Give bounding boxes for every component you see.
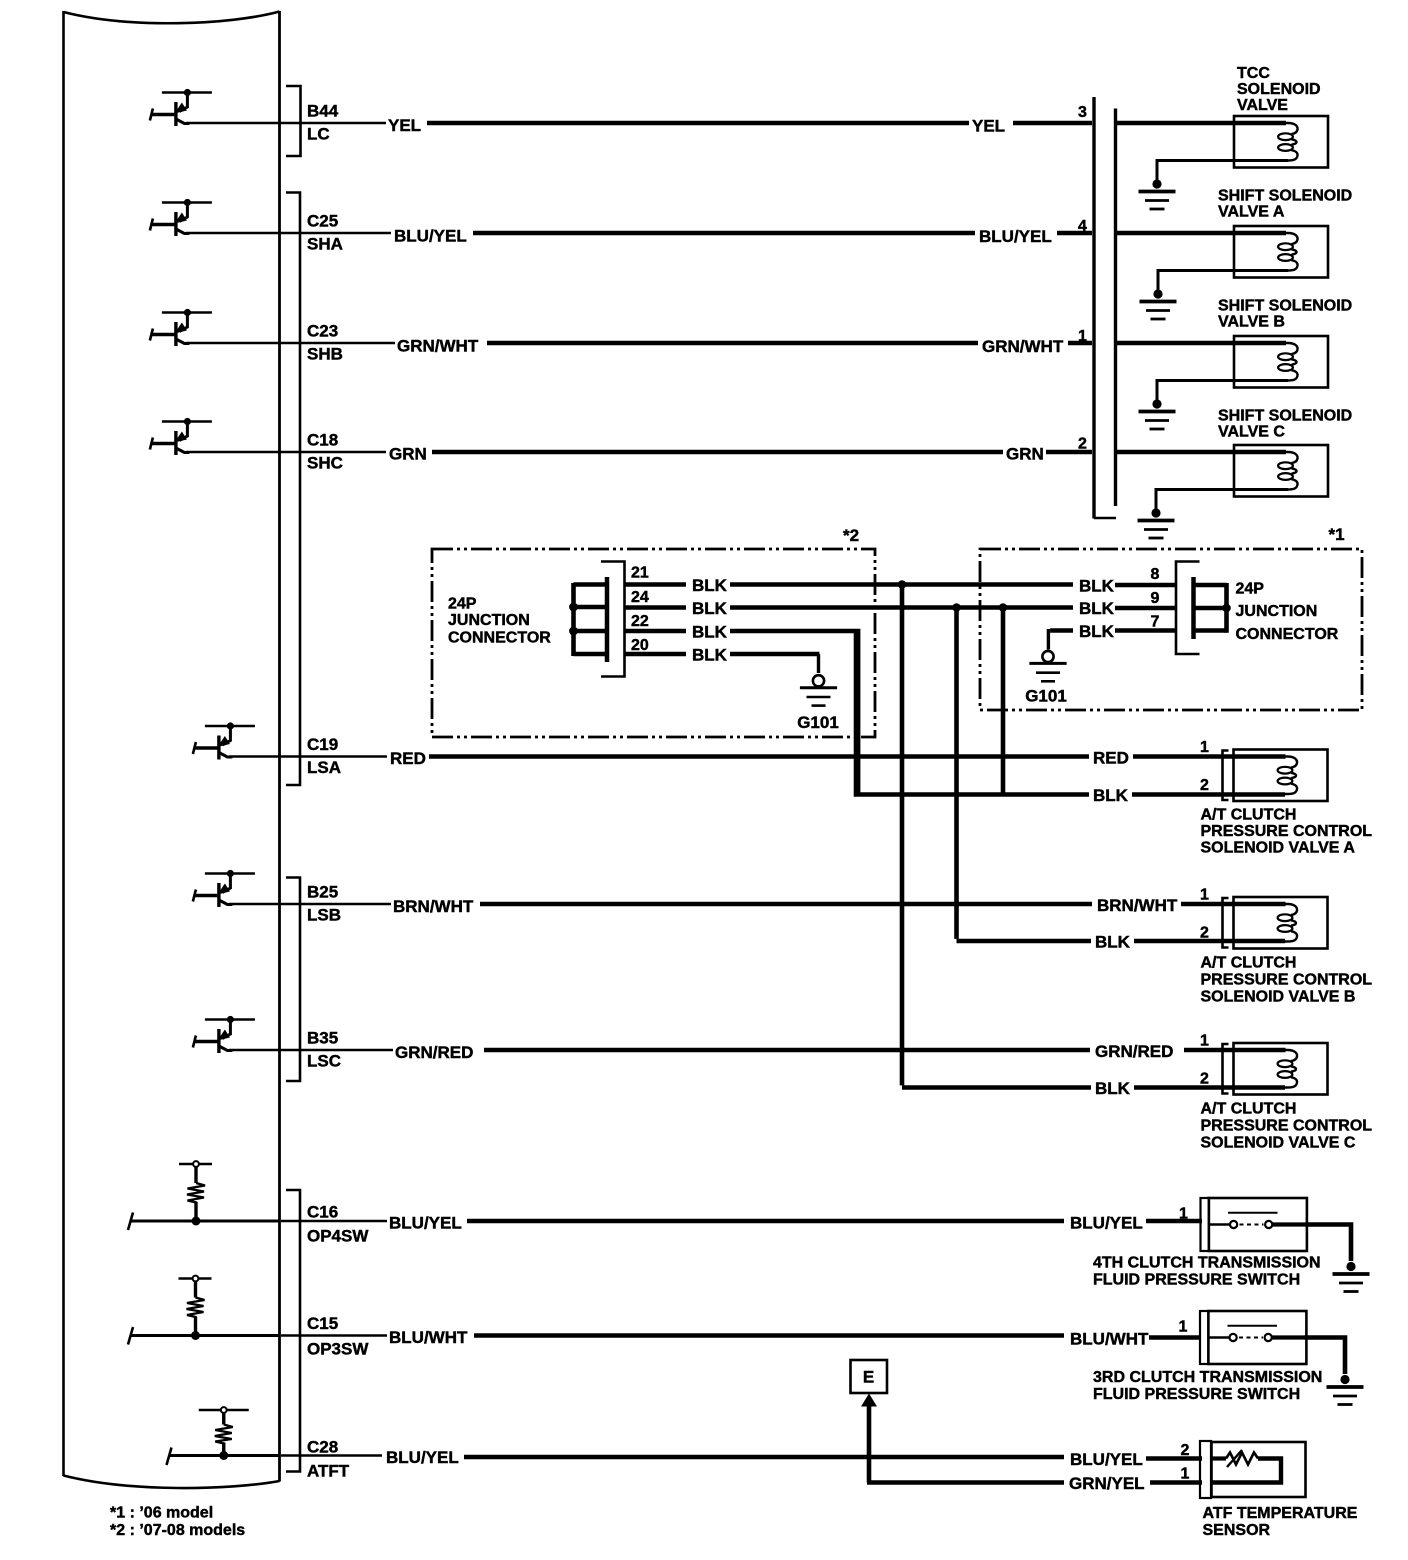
ATF temperature sensor xyxy=(1200,1441,1306,1498)
wire BLU/YEL row C16 xyxy=(281,1214,1202,1233)
transistor Q4 (SHC driver) xyxy=(150,418,212,455)
wire BLU/YEL row C25 xyxy=(186,227,1235,247)
svg-text:LSA: LSA xyxy=(307,758,341,777)
svg-text:1: 1 xyxy=(1179,1319,1188,1336)
wire BRN/WHT row B25 xyxy=(229,896,1234,916)
transistor Q7 (LSC driver) xyxy=(193,1016,255,1053)
svg-text:*1: *1 xyxy=(1328,525,1344,544)
svg-text:9: 9 xyxy=(1151,590,1160,607)
svg-text:SOLENOID VALVE C: SOLENOID VALVE C xyxy=(1201,1135,1356,1152)
wire BLK pin 7 to G101 xyxy=(1048,622,1176,650)
svg-text:BLU/YEL: BLU/YEL xyxy=(386,1448,459,1467)
wire BLK pin 21 to pin 8 xyxy=(625,576,1074,595)
svg-text:VALVE: VALVE xyxy=(1237,97,1288,114)
pin label B35/LSC xyxy=(307,1029,341,1071)
svg-text:OP3SW: OP3SW xyxy=(307,1340,369,1359)
svg-text:SOLENOID VALVE B: SOLENOID VALVE B xyxy=(1201,989,1356,1006)
svg-text:PRESSURE CONTROL: PRESSURE CONTROL xyxy=(1201,1118,1373,1135)
label A/T CLUTCH PRESSURE CONTROL SOLENOID VALVE A xyxy=(1201,807,1373,857)
svg-text:SOLENOID: SOLENOID xyxy=(1237,81,1321,98)
junction dot wire 21/8 xyxy=(898,580,907,589)
svg-text:LSB: LSB xyxy=(307,906,341,925)
wire BLU/YEL row C28 xyxy=(281,1448,1202,1469)
svg-text:C19: C19 xyxy=(307,735,338,754)
wire valve C to ground xyxy=(1156,490,1288,510)
svg-text:GRN/WHT: GRN/WHT xyxy=(397,337,479,356)
svg-text:ATF TEMPERATURE: ATF TEMPERATURE xyxy=(1203,1505,1358,1522)
bracket pins C25-C19 group xyxy=(286,193,300,786)
wire BLK to valve A pin 2 xyxy=(856,631,1285,805)
svg-text:BLK: BLK xyxy=(1095,933,1131,952)
label SHIFT SOLENOID VALVE A xyxy=(1218,188,1352,221)
svg-text:BLK: BLK xyxy=(692,576,728,595)
ground valve A xyxy=(1140,289,1177,319)
svg-text:21: 21 xyxy=(631,565,649,582)
label TCC SOLENOID VALVE xyxy=(1237,65,1321,114)
ground valve B xyxy=(1139,399,1176,429)
junction connector symbol (right) xyxy=(1176,562,1227,655)
pull-up resistor OP3SW xyxy=(179,1276,212,1340)
TCC solenoid valve xyxy=(1233,116,1328,168)
svg-text:GRN/RED: GRN/RED xyxy=(395,1043,473,1062)
svg-text:VALVE A: VALVE A xyxy=(1218,204,1285,221)
svg-text:B44: B44 xyxy=(307,102,339,121)
svg-text:OP4SW: OP4SW xyxy=(307,1227,369,1246)
bracket pin B44 group xyxy=(286,86,301,156)
svg-text:24: 24 xyxy=(631,589,649,606)
svg-text:TCC: TCC xyxy=(1237,65,1270,82)
junction connector symbol (left) xyxy=(574,562,625,677)
3rd clutch transmission fluid pressure switch xyxy=(1200,1311,1306,1364)
junction box 2 dashed border xyxy=(432,549,875,737)
pin label B44/LC xyxy=(307,102,339,144)
svg-text:BRN/WHT: BRN/WHT xyxy=(393,897,474,916)
svg-text:GRN: GRN xyxy=(389,445,427,464)
svg-text:4: 4 xyxy=(1078,218,1087,235)
junction dot bus pin 24 xyxy=(569,603,578,612)
label 24P JUNCTION CONNECTOR (left) xyxy=(448,596,551,647)
svg-text:SHIFT SOLENOID: SHIFT SOLENOID xyxy=(1218,408,1352,425)
svg-text:GRN/YEL: GRN/YEL xyxy=(1069,1474,1145,1493)
svg-text:SHB: SHB xyxy=(307,345,343,364)
vertical BLK wire from junction 24/9 at 956 down xyxy=(954,608,959,939)
wire switch 3rd to ground xyxy=(1305,1338,1346,1375)
wire switch 4th to ground xyxy=(1305,1225,1351,1262)
svg-text:VALVE B: VALVE B xyxy=(1218,314,1285,331)
wire valve B to ground xyxy=(1157,381,1288,401)
svg-text:SENSOR: SENSOR xyxy=(1203,1522,1271,1539)
svg-text:1: 1 xyxy=(1179,1206,1188,1223)
svg-text:BRN/WHT: BRN/WHT xyxy=(1097,896,1178,915)
footnote model years xyxy=(110,1505,245,1540)
svg-text:YEL: YEL xyxy=(972,117,1005,136)
shift solenoid valve A xyxy=(1233,226,1328,278)
svg-text:E: E xyxy=(863,1368,874,1387)
pin label C25/SHA xyxy=(307,212,343,254)
transistor Q6 (LSB driver) xyxy=(193,870,255,907)
ground switch 3rd xyxy=(1327,1375,1364,1405)
bracket pins C16-C28 group xyxy=(286,1190,300,1472)
svg-text:24P: 24P xyxy=(448,596,477,613)
svg-text:BLK: BLK xyxy=(692,599,728,618)
svg-text:1: 1 xyxy=(1078,328,1087,345)
svg-text:1: 1 xyxy=(1200,739,1209,756)
label 24P JUNCTION CONNECTOR (right) xyxy=(1236,581,1339,644)
wire GRN row C18 xyxy=(186,445,1235,464)
svg-text:1: 1 xyxy=(1181,1466,1190,1483)
pull-up resistor ATFT xyxy=(199,1407,249,1460)
svg-text:LC: LC xyxy=(307,125,330,144)
svg-text:BLU/YEL: BLU/YEL xyxy=(1070,1450,1143,1469)
svg-text:GRN/RED: GRN/RED xyxy=(1095,1042,1173,1061)
svg-text:BLK: BLK xyxy=(1093,786,1129,805)
pin label C28/ATFT xyxy=(307,1438,350,1481)
A/T clutch pressure control solenoid valve C xyxy=(1223,1043,1328,1095)
svg-text:BLU/YEL: BLU/YEL xyxy=(394,227,467,246)
wire RED row C19 xyxy=(229,749,1234,769)
wire BLK pin 24 to pin 9 xyxy=(625,599,1074,618)
svg-text:SHA: SHA xyxy=(307,235,343,254)
junction dot wire 24/9 at 956 xyxy=(952,603,961,612)
svg-text:C25: C25 xyxy=(307,212,338,231)
junction dot wire 24/9 at 1003 xyxy=(999,603,1008,612)
A/T clutch pressure control solenoid valve A xyxy=(1223,750,1328,802)
svg-text:VALVE C: VALVE C xyxy=(1218,424,1285,441)
svg-text:2: 2 xyxy=(1200,1071,1209,1088)
wire YEL row B44 xyxy=(186,116,1235,136)
ground G101 (left) xyxy=(800,675,837,705)
wire GRN/YEL row xyxy=(867,1474,1202,1493)
svg-text:JUNCTION: JUNCTION xyxy=(1236,603,1318,620)
svg-text:G101: G101 xyxy=(797,713,839,732)
wire GRN/WHT row C23 xyxy=(186,337,1235,357)
wire valve A to ground xyxy=(1158,271,1288,291)
bracket pins B25-B35 group xyxy=(286,878,300,1082)
svg-text:BLK: BLK xyxy=(1079,622,1115,641)
svg-text:2: 2 xyxy=(1078,436,1087,453)
wire C15 internal xyxy=(130,1334,280,1337)
wire GRN/RED row B35 xyxy=(229,1042,1234,1062)
svg-text:1: 1 xyxy=(1200,887,1209,904)
svg-text:SHC: SHC xyxy=(307,454,343,473)
svg-text:2: 2 xyxy=(1200,925,1209,942)
svg-text:A/T CLUTCH: A/T CLUTCH xyxy=(1201,807,1297,824)
slash continuation mark C28 xyxy=(167,1448,172,1466)
svg-text:FLUID PRESSURE SWITCH: FLUID PRESSURE SWITCH xyxy=(1093,1386,1300,1403)
junction box 1 dashed border xyxy=(980,549,1362,710)
label A/T CLUTCH PRESSURE CONTROL SOLENOID VALVE C xyxy=(1201,1101,1373,1152)
transistor Q1 (LC driver) xyxy=(150,89,212,126)
svg-text:A/T CLUTCH: A/T CLUTCH xyxy=(1201,955,1297,972)
wire BLK pin 8 xyxy=(1079,577,1176,596)
svg-text:*2 : ’07-08 models: *2 : ’07-08 models xyxy=(110,1522,245,1539)
A/T clutch pressure control solenoid valve B xyxy=(1223,897,1328,949)
svg-text:8: 8 xyxy=(1151,566,1160,583)
junction dot bus pin 9 xyxy=(1222,604,1231,613)
pull-up resistor OP4SW xyxy=(179,1161,212,1225)
svg-text:CONNECTOR: CONNECTOR xyxy=(448,630,551,647)
ground TCC valve xyxy=(1139,179,1176,209)
svg-text:2: 2 xyxy=(1181,1442,1190,1459)
svg-text:1: 1 xyxy=(1200,1033,1209,1050)
svg-text:4TH CLUTCH TRANSMISSION: 4TH CLUTCH TRANSMISSION xyxy=(1093,1255,1321,1272)
svg-text:GRN: GRN xyxy=(1006,445,1044,464)
svg-text:7: 7 xyxy=(1151,614,1160,631)
arrow from E down xyxy=(861,1394,877,1407)
svg-text:C23: C23 xyxy=(307,322,338,341)
svg-text:2: 2 xyxy=(1200,777,1209,794)
svg-text:BLU/YEL: BLU/YEL xyxy=(389,1214,462,1233)
svg-text:PRESSURE CONTROL: PRESSURE CONTROL xyxy=(1201,823,1373,840)
svg-text:SHIFT SOLENOID: SHIFT SOLENOID xyxy=(1218,298,1352,315)
shift solenoid valve B xyxy=(1233,336,1328,388)
label 3RD CLUTCH TRANSMISSION FLUID PRESSURE SWITCH xyxy=(1093,1369,1322,1403)
svg-text:RED: RED xyxy=(1093,749,1129,768)
svg-text:BLU/WHT: BLU/WHT xyxy=(389,1328,468,1347)
svg-text:20: 20 xyxy=(631,637,649,654)
vertical BLK wire from junction 21/8 down xyxy=(900,585,905,1086)
svg-text:C16: C16 xyxy=(307,1203,338,1222)
label SHIFT SOLENOID VALVE B xyxy=(1218,298,1352,331)
svg-text:G101: G101 xyxy=(1025,687,1067,706)
svg-text:A/T CLUTCH: A/T CLUTCH xyxy=(1201,1101,1297,1118)
svg-text:JUNCTION: JUNCTION xyxy=(448,612,530,629)
wire C28 internal xyxy=(169,1454,280,1457)
svg-text:FLUID PRESSURE SWITCH: FLUID PRESSURE SWITCH xyxy=(1093,1272,1300,1289)
wire BLU/WHT row C15 xyxy=(281,1328,1201,1349)
wire BLK to valve B pin 2 xyxy=(957,933,1286,952)
svg-text:BLK: BLK xyxy=(1095,1079,1131,1098)
svg-text:PRESSURE CONTROL: PRESSURE CONTROL xyxy=(1201,972,1373,989)
transistor Q2 (SHA driver) xyxy=(150,199,212,236)
svg-text:B35: B35 xyxy=(307,1029,338,1048)
wire BLK pin 9 xyxy=(1079,599,1176,618)
svg-text:SOLENOID VALVE A: SOLENOID VALVE A xyxy=(1201,840,1356,857)
junction dot bus pin 22 xyxy=(569,627,578,636)
transistor Q5 (LSA driver) xyxy=(193,722,255,759)
svg-text:ATFT: ATFT xyxy=(307,1462,350,1481)
svg-text:RED: RED xyxy=(390,749,426,768)
svg-text:BLU/YEL: BLU/YEL xyxy=(1070,1214,1143,1233)
svg-text:SHIFT SOLENOID: SHIFT SOLENOID xyxy=(1218,188,1352,205)
svg-text:BLU/WHT: BLU/WHT xyxy=(1070,1330,1149,1349)
pin label C18/SHC xyxy=(307,431,343,473)
svg-text:BLK: BLK xyxy=(1079,599,1115,618)
pin label B25/LSB xyxy=(307,883,341,925)
PCM / ECM module outline (torn box) xyxy=(64,11,280,1488)
label ATF TEMPERATURE SENSOR xyxy=(1203,1505,1358,1539)
pin label C15/OP3SW xyxy=(307,1314,369,1359)
shift solenoid valve C xyxy=(1233,445,1328,497)
wire E to GRN/YEL xyxy=(867,1405,872,1483)
wire BLK pin 20 to G101 xyxy=(625,646,820,674)
svg-text:BLK: BLK xyxy=(1079,577,1115,596)
pin label C19/LSA xyxy=(307,735,341,777)
svg-text:C18: C18 xyxy=(307,431,338,450)
svg-text:BLU/YEL: BLU/YEL xyxy=(979,227,1052,246)
wire C16 internal xyxy=(130,1220,280,1223)
ground G101 (right) xyxy=(1029,651,1066,681)
svg-text:*1 : ’06 model: *1 : ’06 model xyxy=(110,1505,213,1522)
svg-text:24P: 24P xyxy=(1236,581,1265,598)
wire BLK pin 22 xyxy=(625,623,859,795)
ground switch 4th xyxy=(1333,1262,1370,1292)
svg-text:C28: C28 xyxy=(307,1438,338,1457)
svg-text:*2: *2 xyxy=(843,526,859,545)
svg-text:CONNECTOR: CONNECTOR xyxy=(1236,626,1339,643)
slash continuation mark C15 xyxy=(128,1327,133,1345)
svg-text:YEL: YEL xyxy=(388,116,421,135)
svg-text:BLK: BLK xyxy=(692,623,728,642)
svg-text:BLK: BLK xyxy=(692,646,728,665)
svg-text:22: 22 xyxy=(631,613,649,630)
svg-text:C15: C15 xyxy=(307,1314,338,1333)
connector bar (solenoid valve connector) xyxy=(1094,97,1116,519)
svg-text:GRN/WHT: GRN/WHT xyxy=(982,337,1064,356)
vertical BLK wire from junction 24/9 at 1003 down xyxy=(1001,608,1006,795)
wire TCC valve to ground xyxy=(1157,161,1288,181)
label 4TH CLUTCH TRANSMISSION FLUID PRESSURE SWITCH xyxy=(1093,1255,1321,1289)
slash continuation mark C16 xyxy=(128,1213,133,1231)
label SHIFT SOLENOID VALVE C xyxy=(1218,408,1352,441)
svg-text:LSC: LSC xyxy=(307,1052,341,1071)
4th clutch transmission fluid pressure switch xyxy=(1201,1198,1307,1251)
ground valve C xyxy=(1138,508,1175,538)
wire BLK to valve C pin 2 xyxy=(902,1079,1285,1098)
pin label C23/SHB xyxy=(307,322,343,364)
transistor Q3 (SHB driver) xyxy=(150,309,212,346)
label A/T CLUTCH PRESSURE CONTROL SOLENOID VALVE B xyxy=(1201,955,1373,1006)
connector E box xyxy=(851,1360,888,1393)
svg-text:3: 3 xyxy=(1078,104,1087,121)
pin label C16/OP4SW xyxy=(307,1203,369,1246)
svg-text:B25: B25 xyxy=(307,883,338,902)
svg-text:3RD CLUTCH TRANSMISSION: 3RD CLUTCH TRANSMISSION xyxy=(1093,1369,1322,1386)
